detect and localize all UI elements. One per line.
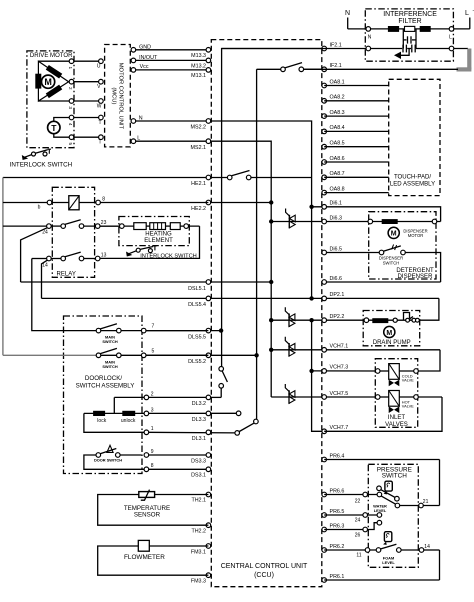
pressure switch right rail — [439, 460, 441, 506]
svg-text:21: 21 — [423, 499, 429, 505]
wire PR6.6 water level switch — [324, 486, 439, 508]
wire N / MS2.2 — [133, 120, 208, 122]
svg-text:Vcc: Vcc — [140, 64, 149, 70]
svg-text:M13.2: M13.2 — [191, 64, 206, 70]
choke 1 — [388, 26, 399, 32]
wire DSL5.1 / Di6.6 full row — [21, 281, 272, 283]
wire Di6.6 external — [324, 281, 440, 283]
svg-text:OA8.5: OA8.5 — [330, 141, 345, 147]
wire PR6.4 to right rail — [324, 459, 439, 461]
svg-text:TH2.2: TH2.2 — [191, 529, 206, 535]
svg-text:DRAIN PUMP: DRAIN PUMP — [373, 340, 411, 346]
svg-text:OA8.6: OA8.6 — [330, 156, 345, 162]
svg-text:8: 8 — [151, 463, 154, 469]
wire hot valve return to VCH7.7 — [324, 397, 442, 431]
svg-text:VCH7.7: VCH7.7 — [330, 425, 349, 431]
left edge vertical rail — [2, 178, 4, 356]
svg-text:T: T — [98, 120, 101, 126]
label HEATING ELEMENT — [144, 231, 173, 244]
svg-text:DP2.1: DP2.1 — [330, 292, 345, 298]
tachometer T symbol — [48, 121, 60, 133]
CCU right edge terminal labels — [330, 42, 349, 580]
door lock solenoids — [84, 397, 144, 432]
svg-text:MS2.2: MS2.2 — [191, 125, 206, 131]
svg-text:FM3.1: FM3.1 — [191, 549, 206, 555]
wire 14 to main switch 1 — [32, 259, 96, 331]
svg-text:SWITCH: SWITCH — [102, 339, 118, 344]
wire Di6.5 row — [324, 253, 440, 283]
svg-text:PR6.2: PR6.2 — [330, 544, 345, 550]
motor M symbol — [42, 75, 55, 88]
svg-text:N: N — [139, 115, 143, 121]
winding bar lower — [47, 87, 60, 96]
pressure switch lower return rail — [439, 550, 441, 580]
svg-text:OA8.7: OA8.7 — [330, 171, 345, 177]
svg-text:5: 5 — [68, 143, 73, 146]
door switch — [84, 445, 154, 471]
changeover switch bus256 to DL3.1 / DL3.3 — [235, 411, 258, 435]
MCU side pin circles — [99, 59, 104, 140]
svg-text:14: 14 — [424, 544, 430, 550]
switch on L bus inside CCU — [257, 63, 325, 72]
svg-text:2: 2 — [151, 391, 154, 397]
svg-text:HEATING: HEATING — [145, 231, 172, 237]
svg-text:ELEMENT: ELEMENT — [144, 238, 173, 244]
wire Di6.1 row to right vertical — [312, 207, 441, 222]
svg-text:W: W — [97, 104, 102, 110]
svg-text:2: 2 — [68, 87, 73, 90]
capacitor C1 mid row — [403, 36, 416, 43]
label MOTOR CONTROL UNIT (MCU) rotated — [111, 63, 124, 130]
svg-text:INTERLOCK SWITCH: INTERLOCK SWITCH — [10, 162, 73, 169]
motor pin circles — [69, 59, 74, 140]
svg-text:RELAY: RELAY — [57, 272, 76, 278]
main switch 1 row — [96, 324, 208, 333]
filter edge pins — [366, 27, 454, 51]
wire DP2.1 drop to pump — [417, 298, 439, 320]
mains N lead-in — [345, 10, 350, 29]
wire DLS5.4 / DP2.1 full row — [42, 297, 439, 299]
triac T2 row DP2.2 — [271, 307, 417, 327]
svg-text:OA8.2: OA8.2 — [330, 95, 345, 101]
svg-text:OA8.1: OA8.1 — [330, 79, 345, 85]
svg-text:Di6.5: Di6.5 — [330, 246, 343, 252]
svg-text:IN/OUT: IN/OUT — [139, 55, 158, 61]
svg-text:GND: GND — [139, 44, 151, 50]
svg-text:L: L — [465, 10, 469, 17]
svg-text:PR6.4: PR6.4 — [330, 453, 345, 459]
svg-text:PR6.1: PR6.1 — [330, 574, 345, 580]
detergent dispenser box — [369, 212, 436, 279]
svg-text:CENTRAL CONTROL UNIT: CENTRAL CONTROL UNIT — [221, 563, 308, 570]
wire motor W row — [38, 100, 101, 102]
svg-text:4: 4 — [68, 123, 73, 126]
wire b line / relay coil row — [3, 202, 209, 204]
wires OA8.1 - OA8.8 — [324, 86, 389, 193]
wire DL3.1 — [146, 431, 235, 434]
svg-text:VALVES: VALVES — [385, 422, 408, 428]
triac T1 row Di6.3 — [271, 208, 440, 228]
relay contact 24-23 — [42, 220, 119, 236]
svg-text:PR6.6: PR6.6 — [330, 488, 345, 494]
wire PR6.1 — [324, 579, 439, 581]
filter top line — [348, 28, 470, 30]
svg-text:SWITCH: SWITCH — [102, 364, 118, 369]
doorlock pins 2 3 1 — [144, 391, 154, 434]
doorlock switch assembly box — [64, 316, 143, 474]
svg-text:Di6.1: Di6.1 — [330, 201, 343, 207]
inlet valves box — [375, 359, 417, 428]
wire heating element return to 13 — [100, 226, 200, 258]
svg-text:DETERGENT: DETERGENT — [396, 268, 434, 274]
dispenser motor winding — [368, 219, 437, 224]
pressure switch box — [368, 464, 418, 567]
svg-text:INLET: INLET — [388, 415, 405, 421]
wire HE2.1 with internal switch to bus B — [3, 171, 312, 180]
wire HE2.2 internal to bus A dot — [208, 202, 271, 204]
svg-text:lock: lock — [97, 418, 106, 424]
svg-text:22: 22 — [355, 498, 361, 504]
mains L lead-in — [465, 8, 474, 29]
label WATER LEVEL — [373, 503, 387, 513]
wire PR6.2 foam level switch — [324, 544, 439, 559]
labels U V W T T — [97, 64, 102, 146]
central control unit CCU box — [211, 40, 321, 587]
svg-text:U: U — [97, 64, 101, 70]
touch-pad LED assembly box — [389, 79, 440, 195]
svg-text:IF2.1: IF2.1 — [330, 63, 342, 69]
svg-text:T: T — [51, 123, 57, 133]
motor delta winding triangle — [38, 61, 68, 101]
interference filter box — [365, 9, 453, 61]
wire DL3.3 — [146, 412, 236, 414]
wire MS2.2 internal to bus B — [208, 121, 311, 298]
junction dots inside CCU — [269, 200, 273, 204]
svg-text:L: L — [449, 34, 452, 40]
svg-text:M: M — [386, 330, 392, 337]
svg-text:DS3.1: DS3.1 — [191, 473, 206, 479]
wire DS3.1 — [146, 468, 208, 470]
motor pin numbers rotated — [68, 67, 73, 146]
MCU box — [105, 45, 131, 147]
drain pump M symbol — [384, 326, 395, 337]
svg-text:8: 8 — [102, 197, 105, 203]
label FOAM LEVEL — [382, 556, 395, 566]
wire PR6.5 link row 24 — [324, 513, 382, 524]
svg-text:SWITCH: SWITCH — [383, 261, 400, 266]
svg-text:13: 13 — [101, 253, 107, 259]
svg-text:MOTOR: MOTOR — [408, 233, 424, 238]
svg-text:(MCU): (MCU) — [111, 87, 117, 104]
svg-text:TH2.1: TH2.1 — [191, 498, 206, 504]
label INLET VALVES — [385, 415, 408, 428]
svg-text:7: 7 — [152, 324, 155, 330]
relay coil pins b and 8 — [38, 197, 106, 211]
thick L return path — [457, 49, 472, 70]
svg-text:VCH7.1: VCH7.1 — [330, 344, 349, 350]
wire DS3.3 — [146, 454, 208, 456]
filter resistor — [405, 26, 415, 31]
filter ground arrow — [394, 49, 409, 60]
wire DLS5.5 with junction on bus 221 — [146, 330, 221, 332]
CCU right edge terminals — [322, 46, 327, 582]
relay contact 14-13 — [32, 252, 107, 268]
svg-text:OA8.8: OA8.8 — [330, 186, 345, 192]
label MAIN SWITCH 2 — [102, 359, 118, 369]
svg-text:24: 24 — [355, 517, 361, 523]
label PRESSURE SWITCH — [377, 466, 412, 479]
drain pump winding and protector — [364, 313, 419, 324]
svg-text:MS2.1: MS2.1 — [191, 145, 206, 151]
label DOORLOCK/ SWITCH ASSEMBLY — [76, 375, 135, 389]
svg-text:DL3.2: DL3.2 — [192, 401, 206, 407]
svg-text:T: T — [98, 140, 101, 146]
wire 24 feed line — [3, 225, 47, 227]
svg-text:LEVEL: LEVEL — [382, 560, 395, 565]
svg-text:PR6.5: PR6.5 — [330, 509, 345, 515]
svg-text:26: 26 — [355, 532, 361, 538]
label TEMPERATURE SENSOR — [124, 505, 170, 519]
svg-text:HE2.1: HE2.1 — [191, 181, 206, 187]
relay box — [52, 187, 94, 277]
wire motor U row — [38, 60, 101, 62]
MCU right pins GND IN/OUT Vcc N L — [131, 48, 136, 144]
choke 2 — [420, 26, 431, 32]
svg-text:23: 23 — [101, 220, 107, 226]
CCU left edge terminal labels — [188, 53, 206, 585]
wire motor V row — [69, 81, 101, 83]
svg-text:DL3.3: DL3.3 — [192, 417, 206, 423]
svg-text:9: 9 — [151, 449, 154, 455]
svg-text:HE2.2: HE2.2 — [191, 206, 206, 212]
svg-text:FM3.3: FM3.3 — [191, 579, 206, 585]
svg-text:DLS5.4: DLS5.4 — [188, 302, 206, 308]
label DETERGENT DISPENSER — [396, 268, 434, 280]
svg-text:MOTOR CONTROL UNIT: MOTOR CONTROL UNIT — [118, 63, 124, 130]
flowmeter loop — [98, 540, 209, 575]
svg-text:(CCU): (CCU) — [254, 572, 274, 579]
wire IF2.1 line 1 internal — [222, 49, 325, 367]
svg-text:M: M — [44, 77, 52, 87]
wire IF2.1 second line — [304, 68, 458, 70]
label COLD VALVE — [402, 373, 414, 382]
svg-text:INTERLOCK SWITCH: INTERLOCK SWITCH — [140, 254, 197, 260]
dispenser motor M symbol — [388, 227, 399, 238]
heating element box — [119, 217, 189, 246]
svg-text:DP2.2: DP2.2 — [330, 314, 345, 320]
interlock switch top-left symbol — [22, 149, 51, 160]
svg-text:OA8.4: OA8.4 — [330, 125, 345, 131]
label INTERFERENCE FILTER — [383, 11, 437, 25]
wire tach row 4 — [54, 118, 101, 122]
svg-text:DOORLOCK/: DOORLOCK/ — [85, 375, 122, 382]
svg-text:VCH7.5: VCH7.5 — [330, 391, 349, 397]
wire IN/OUT / M13.2 — [133, 59, 208, 61]
svg-text:M13.1: M13.1 — [191, 73, 206, 79]
svg-text:DL3.1: DL3.1 — [192, 436, 206, 442]
main switch 2 row — [3, 348, 209, 357]
svg-text:3: 3 — [151, 407, 154, 413]
svg-text:L: L — [137, 136, 140, 142]
label MAIN SWITCH 1 — [102, 335, 118, 345]
svg-text:VALVE: VALVE — [402, 403, 414, 408]
triac T4 row VCH7.5 — [271, 384, 378, 404]
wire VCH7.1 drop to cold valve — [416, 350, 440, 371]
svg-text:PR6.3: PR6.3 — [330, 523, 345, 529]
drive motor box — [27, 51, 74, 148]
filter side verticals — [402, 29, 404, 49]
winding bar upper — [47, 67, 60, 76]
svg-text:Di6.6: Di6.6 — [330, 276, 343, 282]
wire DLS5.2 to junction on bus 256 — [146, 354, 257, 356]
bus C from DP2.2 down to VCH7.7 — [312, 320, 325, 431]
svg-text:M: M — [391, 231, 397, 238]
wire Vcc / M13.1 — [133, 69, 208, 71]
wire L / MS2.1 — [133, 140, 208, 142]
svg-text:3: 3 — [68, 106, 73, 109]
svg-text:SWITCH ASSEMBLY: SWITCH ASSEMBLY — [76, 383, 135, 390]
svg-text:SENSOR: SENSOR — [134, 512, 161, 519]
svg-text:1: 1 — [151, 426, 154, 432]
svg-text:INTERFERENCE: INTERFERENCE — [383, 11, 437, 18]
label HOT VALVE — [402, 399, 414, 408]
wire PR6.3 link row 26 — [324, 520, 382, 538]
temperature sensor loop — [98, 490, 209, 526]
svg-text:LED ASSEMBLY: LED ASSEMBLY — [390, 182, 435, 188]
filter lower line IF2.1 with series capacitors — [222, 45, 468, 53]
svg-text:M13.3: M13.3 — [191, 53, 206, 59]
water level actuator icon — [384, 481, 393, 494]
drain pump box — [363, 311, 420, 346]
wire 24 to DSL5.1 — [21, 228, 48, 282]
svg-text:TOUCH-PAD/: TOUCH-PAD/ — [394, 175, 431, 181]
dispenser switch — [379, 245, 405, 255]
heating element resistors — [100, 223, 200, 230]
labels GND IN/OUT Vcc N L — [137, 44, 158, 141]
interlock switch at heating element — [126, 246, 157, 257]
svg-text:DRIVE MOTOR: DRIVE MOTOR — [30, 53, 73, 59]
label CENTRAL CONTROL UNIT (CCU) — [221, 563, 308, 579]
svg-text:DLS5.5: DLS5.5 — [188, 334, 206, 340]
svg-text:VALVE: VALVE — [402, 377, 414, 382]
svg-text:LEVEL: LEVEL — [374, 508, 387, 513]
svg-text:FILTER: FILTER — [398, 18, 421, 25]
svg-text:DOOR SWITCH: DOOR SWITCH — [94, 458, 122, 463]
svg-text:DSL5.1: DSL5.1 — [188, 286, 206, 292]
wire GND / M13.3 — [133, 49, 208, 51]
svg-text:24: 24 — [42, 230, 48, 236]
wire tach row 5 — [54, 134, 101, 138]
svg-text:b: b — [38, 205, 41, 211]
winding bar left — [35, 74, 41, 89]
label TOUCH-PAD / LED ASSEMBLY — [390, 175, 435, 188]
svg-text:N: N — [345, 10, 350, 17]
svg-text:1: 1 — [68, 67, 73, 70]
svg-text:DISPENSER: DISPENSER — [398, 274, 434, 280]
wire DL3.2 — [146, 396, 208, 398]
switch from bus 221 to DL3.2 — [208, 367, 227, 398]
svg-text:SWITCH: SWITCH — [382, 473, 408, 480]
foam level actuator icon — [383, 532, 392, 545]
svg-text:5: 5 — [152, 348, 155, 354]
svg-text:FLOWMETER: FLOWMETER — [124, 554, 165, 561]
label DISPENSER MOTOR — [403, 228, 427, 237]
wire VCH7.3 row — [312, 370, 378, 372]
svg-text:VCH7.3: VCH7.3 — [330, 365, 349, 371]
svg-text:OA8.3: OA8.3 — [330, 110, 345, 116]
svg-text:Di6.3: Di6.3 — [330, 215, 343, 221]
wire 14 to DLS5.4 — [42, 260, 48, 298]
svg-text:IF2.1: IF2.1 — [330, 42, 342, 48]
hot valve — [375, 391, 442, 414]
svg-text:DS3.3: DS3.3 — [191, 458, 206, 464]
svg-text:11: 11 — [356, 553, 361, 559]
svg-text:DLS5.2: DLS5.2 — [188, 359, 206, 365]
wire MS2.1 internal to bus A — [208, 141, 271, 397]
svg-text:unlock: unlock — [121, 418, 136, 424]
CCU left edge terminals — [206, 48, 211, 578]
triac T3 row VCH7.1 — [271, 337, 440, 357]
relay coil — [69, 196, 79, 210]
bus L vertical inside CCU — [256, 69, 258, 419]
cold valve — [375, 364, 418, 387]
svg-text:N: N — [368, 34, 372, 40]
label DISPENSER SWITCH — [379, 255, 403, 265]
